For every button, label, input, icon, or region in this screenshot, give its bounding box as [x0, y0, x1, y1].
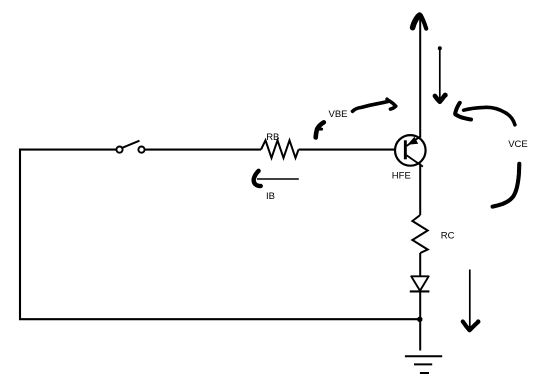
wire diode to ground [419, 291, 421, 350]
VCE upper arrowhead [455, 103, 460, 113]
down arrow right hand head [463, 322, 478, 331]
transistor collector diagonal [407, 136, 421, 146]
wire switch to resistor RB [145, 149, 261, 151]
wire left loop: top-left horizontal, left vertical, bottom horizontal [20, 150, 420, 320]
svg-text:IB: IB [266, 191, 275, 202]
IB arrow shaft [257, 178, 299, 180]
VCE lower curve [493, 164, 520, 207]
transistor base bar [404, 140, 407, 159]
down arrow IC start blob [438, 46, 442, 50]
wire resistor RB to transistor base [299, 149, 405, 151]
hand arrowhead at top of collector wire [413, 16, 419, 27]
wire emitter down to RC [419, 164, 421, 216]
svg-text:HFE: HFE [392, 170, 411, 181]
down arrow IC hand head [435, 95, 445, 102]
resistor RC [412, 215, 427, 253]
wire RC to diode [419, 253, 421, 277]
IB arrow hand head [254, 171, 261, 186]
svg-text:VCE: VCE [508, 139, 528, 150]
switch SW1 [116, 141, 144, 153]
transistor Q1 (PNP) body circle [395, 135, 426, 166]
junction node dot [417, 317, 422, 322]
VBE curved arrow stroke [353, 101, 389, 111]
svg-text:RB: RB [266, 132, 279, 143]
transistor collector arrowhead [407, 137, 418, 145]
transistor emitter diagonal [407, 155, 423, 166]
svg-text:RC: RC [441, 230, 455, 241]
down arrow IC (thin shaft) [439, 48, 441, 99]
freehand tick near base [316, 122, 324, 137]
diode D1 [411, 276, 429, 291]
VCE upper curved arrow stroke [464, 107, 515, 124]
wire collector up [419, 15, 421, 138]
resistor RB [261, 140, 299, 158]
ground [405, 356, 442, 373]
svg-text:VBE: VBE [329, 109, 348, 120]
down arrow right of diode (thin shaft) [469, 270, 471, 328]
VBE arrowhead [387, 99, 390, 101]
